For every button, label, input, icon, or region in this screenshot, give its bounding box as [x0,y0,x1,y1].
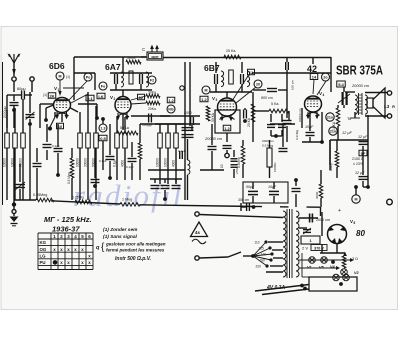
svg-text:10000: 10000 [3,158,7,167]
svg-text:20 KA: 20 KA [247,117,251,127]
svg-text:6B7: 6B7 [204,63,220,73]
svg-text:SBR 375A: SBR 375A [336,63,383,78]
svg-text:50 KA: 50 KA [211,112,215,122]
svg-text:0.25Mg: 0.25Mg [72,196,84,200]
svg-text:NG: NG [168,107,174,111]
svg-text:(1) Zonder sem: (1) Zonder sem [103,227,138,233]
svg-text:1.3: 1.3 [101,126,106,130]
svg-text:1.2: 1.2 [224,126,230,131]
svg-text:190: 190 [260,259,266,263]
svg-text:0.5 Meg: 0.5 Meg [67,172,71,184]
svg-text:2000μμ: 2000μμ [3,107,7,118]
svg-text:20Ka: 20Ka [148,107,156,111]
svg-text:20000 cm: 20000 cm [351,83,370,88]
svg-text:radiofil: radiofil [73,178,184,213]
svg-text:1.2: 1.2 [168,98,174,103]
svg-text:20: 20 [256,82,260,86]
svg-text:125: 125 [259,247,265,251]
svg-text:0.1μF: 0.1μF [178,149,186,153]
svg-text:21o: 21o [327,115,334,119]
svg-text:2 V: 2 V [302,246,308,251]
svg-text:10000: 10000 [164,158,168,167]
svg-text:12 μF: 12 μF [342,130,353,135]
svg-text:PU: PU [40,260,46,265]
svg-text:1.2: 1.2 [201,97,207,102]
svg-text:3: 3 [216,98,218,102]
svg-text:2000 cm: 2000 cm [262,139,274,143]
svg-text:800 cm: 800 cm [261,96,273,100]
svg-text:0.1μF: 0.1μF [52,144,60,148]
svg-text:300 cm: 300 cm [238,198,249,202]
svg-text:5.4: 5.4 [338,82,344,87]
svg-text:Я: Я [392,105,395,109]
svg-text:0.25Meg: 0.25Meg [33,193,47,197]
svg-text:400Ω: 400Ω [315,191,319,199]
svg-text:4s: 4s [195,230,200,235]
svg-text:M: M [59,74,62,78]
svg-text:MГ - 125 kHz.: MГ - 125 kHz. [44,215,92,224]
svg-text:oper: oper [151,55,159,59]
svg-text:6D6: 6D6 [49,61,65,71]
svg-text:100 cm: 100 cm [291,80,295,90]
svg-text:220: 220 [256,265,262,269]
svg-text:12 μF: 12 μF [358,135,368,139]
svg-text:M: M [355,197,358,201]
svg-text:10: 10 [220,164,224,168]
svg-text:Instr 500 Ω.p.V.: Instr 500 Ω.p.V. [115,256,151,262]
svg-text:F2: F2 [150,78,154,82]
svg-text:14: 14 [312,75,317,80]
svg-text:(1): (1) [43,93,47,97]
svg-text:0.5 Meg: 0.5 Meg [262,144,273,148]
svg-text:LG: LG [40,253,47,258]
svg-text:C: C [142,47,145,52]
svg-text:OG: OG [40,247,47,252]
svg-text:M: M [205,88,208,92]
svg-text:370 V: 370 V [314,247,324,251]
svg-text:4000: 4000 [172,160,176,167]
svg-text:gesloten voor alle metingen: gesloten voor alle metingen [105,242,166,247]
svg-text:Po: Po [86,75,91,79]
svg-text:30Ka: 30Ka [148,91,156,95]
svg-text:10000c: 10000c [273,162,277,172]
svg-text:0.21Mg: 0.21Mg [295,130,299,140]
svg-text:1 Meg: 1 Meg [122,198,132,202]
svg-text:4: 4 [323,93,325,97]
svg-text:2000 cm: 2000 cm [316,218,330,222]
svg-text:(1) Sans signal: (1) Sans signal [103,234,138,240]
svg-text:0.5Meg: 0.5Meg [237,157,241,168]
svg-text:110: 110 [255,241,260,245]
svg-text:L3: L3 [384,104,390,109]
svg-text:16μF: 16μF [268,185,277,189]
svg-text:4000: 4000 [121,160,125,167]
svg-text:LK: LK [98,94,103,99]
svg-text:KG: KG [40,240,47,245]
svg-text:80μμ: 80μμ [17,87,26,91]
svg-text:25 Ka.: 25 Ka. [226,49,236,53]
svg-text:21o: 21o [330,129,337,133]
svg-text:5 Ka.: 5 Ka. [271,102,279,106]
svg-text:2K: 2K [49,94,54,99]
svg-text:fermé pendant les mesures: fermé pendant les mesures [106,248,165,253]
svg-text:(1): (1) [66,75,70,79]
svg-text:0.5: 0.5 [100,136,106,141]
svg-text:0.1μF: 0.1μF [126,165,134,169]
svg-text:1936-37: 1936-37 [52,225,80,234]
svg-text:2150 Ω: 2150 Ω [352,157,364,161]
svg-text:10000: 10000 [156,158,160,167]
svg-text:80: 80 [356,229,365,238]
svg-text:4V 0.3A: 4V 0.3A [266,285,285,291]
svg-text:6A7: 6A7 [105,62,121,72]
svg-text:3 Ω: 3 Ω [352,257,358,261]
svg-text:20000 cm: 20000 cm [204,136,223,141]
svg-text:20000: 20000 [84,158,88,167]
svg-text:50Ka: 50Ka [127,56,135,60]
svg-text:2: 2 [114,97,116,101]
svg-text:140: 140 [261,253,267,257]
svg-text:6: 6 [354,221,356,225]
svg-text:10000: 10000 [76,158,80,167]
svg-text:+: + [338,208,341,214]
